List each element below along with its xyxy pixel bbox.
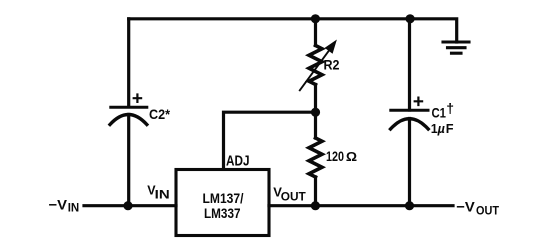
op-amp U1 regulator box LM137/LM337 — [176, 170, 269, 236]
svg-text:†: † — [446, 100, 454, 116]
node junction top C1 — [406, 14, 415, 23]
wire left branch lower — [127, 115, 130, 206]
svg-text:IN: IN — [68, 203, 80, 215]
node junction ADJ — [311, 108, 320, 117]
svg-text:Ω: Ω — [346, 150, 357, 164]
svg-text:ADJ: ADJ — [226, 153, 250, 169]
wire left branch upper — [127, 19, 130, 106]
resistor 120 ohm — [309, 112, 322, 206]
svg-text:µ: µ — [437, 122, 445, 136]
svg-text:F: F — [446, 121, 454, 136]
svg-text:−V: −V — [49, 196, 68, 212]
svg-text:LM137/: LM137/ — [203, 190, 244, 206]
node junction bottom C1 — [405, 201, 414, 210]
label C1 dagger — [432, 100, 455, 121]
pin label VIN — [147, 184, 170, 202]
wire top rail — [129, 19, 457, 42]
node junction bottom C2 — [123, 201, 132, 210]
label -VIN — [49, 196, 80, 214]
value label 120 ohm — [326, 149, 357, 164]
wire bottom rail left — [84, 204, 176, 207]
label -VOUT — [456, 198, 499, 217]
svg-text:OUT: OUT — [476, 206, 499, 218]
capacitor C1 — [391, 19, 429, 206]
arrowhead of R2 — [326, 41, 337, 53]
capacitor C2 — [110, 95, 147, 125]
svg-text:120: 120 — [326, 149, 344, 164]
wire bottom rail right — [269, 204, 453, 207]
ground — [443, 42, 469, 53]
resistor R2 — [300, 19, 330, 112]
svg-text:−V: −V — [456, 198, 475, 214]
svg-text:C1: C1 — [432, 105, 447, 121]
svg-text:C2*: C2* — [149, 106, 170, 122]
svg-text:IN: IN — [155, 190, 170, 202]
svg-text:OUT: OUT — [281, 191, 306, 203]
pin label VOUT — [273, 185, 306, 204]
node junction bottom 120 ohm — [311, 201, 320, 210]
node junction top R2 — [311, 14, 320, 23]
value label 1 uF — [431, 121, 454, 136]
svg-text:R2: R2 — [324, 57, 340, 73]
wire ADJ — [224, 112, 316, 169]
svg-text:LM337: LM337 — [204, 205, 241, 221]
